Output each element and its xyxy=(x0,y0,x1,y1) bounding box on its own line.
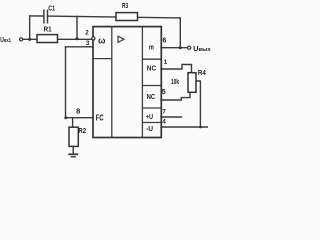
svg-text:6: 6 xyxy=(163,37,167,44)
IC left column divider xyxy=(93,58,112,60)
svg-text:3: 3 xyxy=(86,40,90,47)
op-amp IC box xyxy=(93,27,161,138)
IC right column divider NC/NC xyxy=(142,85,161,87)
svg-text:C1: C1 xyxy=(48,4,55,13)
wire input net xyxy=(23,38,92,40)
svg-text:NC: NC xyxy=(147,92,156,101)
IC internal column divider left xyxy=(111,27,113,138)
svg-text:NC: NC xyxy=(147,63,157,72)
inverting input bubble pin 2 xyxy=(92,37,95,40)
wire pin 4 xyxy=(161,126,207,128)
wire R2 top lead xyxy=(72,118,74,128)
svg-text:8: 8 xyxy=(76,106,80,115)
wire top left C1 segment xyxy=(30,15,44,17)
capacitor C1 xyxy=(44,10,48,24)
junction node input/C1 xyxy=(28,38,31,41)
wire feedback drop to output xyxy=(179,18,181,48)
svg-text:ω: ω xyxy=(98,35,106,45)
svg-text:R4: R4 xyxy=(198,68,207,77)
junction node M R1/C1 xyxy=(76,37,79,40)
svg-text:Uвх1: Uвх1 xyxy=(0,37,11,44)
wire pin 7 stub xyxy=(161,116,182,118)
svg-text:1: 1 xyxy=(164,59,168,66)
svg-text:-U: -U xyxy=(146,124,153,133)
wire node M drop xyxy=(76,16,78,38)
svg-text:2: 2 xyxy=(85,29,89,36)
op-amp triangle xyxy=(118,36,124,42)
wire input to C1 branch xyxy=(29,16,31,40)
svg-text:7: 7 xyxy=(162,109,166,116)
svg-text:5: 5 xyxy=(162,89,166,96)
junction node pin3/pin8/R2 xyxy=(64,116,67,119)
resistor R1 xyxy=(37,35,58,43)
wire pin 5 steps to pot bottom xyxy=(161,92,190,100)
ground xyxy=(68,154,78,157)
svg-text:Uвых: Uвых xyxy=(193,46,211,53)
IC internal column divider right xyxy=(141,27,143,138)
junction node wiper/pin4 xyxy=(199,126,202,129)
svg-text:+U: +U xyxy=(146,112,153,121)
resistor R3 xyxy=(116,13,138,21)
input terminal circle xyxy=(20,38,23,41)
svg-text:4: 4 xyxy=(162,119,166,126)
wire pin 6 output xyxy=(161,47,187,49)
wire top C1 to R3 to output drop xyxy=(47,16,180,18)
wire R2 bottom lead xyxy=(72,146,74,153)
wire pin 3 horizontal xyxy=(66,46,93,48)
output terminal circle xyxy=(188,46,191,49)
wire pot wiper tap xyxy=(196,81,200,127)
svg-text:R1: R1 xyxy=(44,25,52,34)
svg-text:R2: R2 xyxy=(78,128,86,135)
svg-text:m: m xyxy=(149,44,154,51)
junction node output/feedback xyxy=(179,46,182,49)
svg-text:R3: R3 xyxy=(122,3,128,10)
potentiometer 10k xyxy=(188,73,196,93)
wire pin 8 FC xyxy=(66,117,93,119)
IC right column divider NC/+U xyxy=(142,107,161,109)
wire pin 1 zig to pot top xyxy=(161,65,192,73)
svg-text:10k: 10k xyxy=(171,79,179,86)
IC right column divider +U/-U xyxy=(142,122,161,124)
wire pin 3 vertical xyxy=(65,47,67,118)
IC right column divider m/NC xyxy=(142,58,161,60)
resistor R2 xyxy=(69,127,78,146)
svg-text:FC: FC xyxy=(96,114,104,123)
